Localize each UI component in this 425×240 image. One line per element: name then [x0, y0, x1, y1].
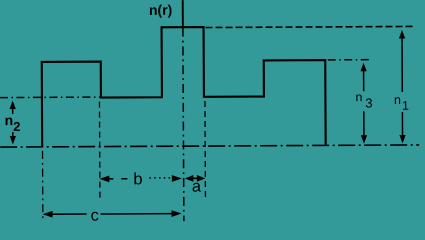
- svg-text:b: b: [133, 170, 142, 188]
- n1 dimension arrow (vertical double arrow): [399, 30, 406, 144]
- axis n(r) vertical dash-dot continuation: [183, 28, 184, 221]
- axis n(r) vertical solid top segment: [182, 0, 184, 27]
- extension dash-dot line at x=42 (outer edge for c): [42, 151, 44, 220]
- baseline dash-dot horizontal axis: [0, 145, 419, 147]
- extension dashed line at x=205 (outer edge for a): [204, 101, 207, 199]
- extension dashed line at x=99.5 (inner edge for b): [98, 102, 101, 200]
- n2 level dash-dot reference line: [0, 96, 101, 99]
- c dimension arrow (horizontal): [43, 210, 182, 218]
- svg-text:c: c: [90, 207, 98, 225]
- svg-text:n(r): n(r): [149, 2, 172, 18]
- a dimension arrow (horizontal, outward heads): [185, 175, 206, 182]
- svg-text:a: a: [192, 178, 202, 196]
- n2 dimension arrow (vertical double arrow): [10, 101, 16, 145]
- refractive index profile polyline: [42, 26, 326, 147]
- n1 level dashed reference line: [206, 26, 413, 27]
- n3 level dash-dot reference line: [328, 59, 372, 61]
- n3 dimension arrow (vertical double arrow): [360, 63, 367, 144]
- b dimension arrow (horizontal): [99, 175, 182, 182]
